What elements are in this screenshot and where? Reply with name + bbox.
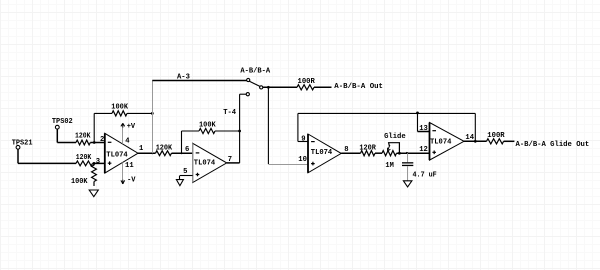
junction output node	[151, 152, 153, 154]
svg-text:TPS02: TPS02	[52, 118, 73, 126]
svg-text:120R: 120R	[359, 144, 376, 152]
resistor 100R (A-B/B-A Out)	[297, 85, 314, 90]
svg-text:2: 2	[100, 136, 104, 144]
svg-text:A-B/B-A Glide Out: A-B/B-A Glide Out	[516, 141, 590, 149]
svg-text:3: 3	[96, 158, 100, 166]
wire to U1c pin 10 (gray)	[268, 164, 308, 166]
switch throw contact A (A-3)	[247, 78, 250, 81]
svg-text:5: 5	[183, 168, 187, 176]
svg-text:TL074: TL074	[430, 139, 452, 147]
svg-text:100K: 100K	[199, 121, 216, 129]
svg-text:100R: 100R	[298, 78, 316, 86]
resistor 120K (between stages)	[156, 151, 172, 156]
test point TPS21 pin circle	[16, 145, 20, 149]
junction pot wiper node	[398, 152, 401, 155]
svg-text:TPS21: TPS21	[12, 139, 33, 147]
switch throw contact B (T-4)	[246, 93, 249, 96]
svg-text:Glide: Glide	[384, 133, 406, 141]
svg-text:11: 11	[125, 162, 134, 170]
wire feedback left leg U1b	[181, 131, 183, 153]
wire feedback to output node	[127, 112, 152, 114]
resistor 120K (TPS02 input)	[76, 140, 90, 145]
svg-text:12: 12	[419, 146, 428, 154]
op-amp U1a TL074	[105, 133, 138, 173]
wire U1c output	[341, 152, 360, 154]
svg-text:A-3: A-3	[177, 74, 190, 82]
wire pin 13 stub	[418, 131, 430, 133]
potentiometer Glide 1M (rheostat)	[382, 151, 397, 156]
wire R120K to U1b pin 6	[172, 152, 193, 154]
svg-text:T-4: T-4	[223, 109, 237, 117]
svg-text:4.7 uF: 4.7 uF	[413, 172, 437, 180]
svg-text:1M: 1M	[385, 162, 393, 170]
svg-text:1: 1	[139, 145, 144, 153]
svg-text:6: 6	[185, 146, 189, 154]
junction pin2 node	[93, 141, 96, 144]
-V supply pin 11	[122, 163, 124, 180]
junction output/feedback node	[474, 140, 477, 143]
resistor 100K feedback U1b	[199, 128, 215, 133]
svg-text:A-B/B-A Out: A-B/B-A Out	[334, 83, 383, 91]
wire pin 5 to ground	[180, 175, 193, 177]
ground (below 100K)	[89, 190, 98, 197]
wire feedback left leg	[93, 113, 95, 142]
svg-text:4: 4	[125, 137, 130, 145]
resistor 120R	[361, 151, 376, 156]
wire glide feedback (top)	[298, 112, 475, 114]
svg-text:TL074: TL074	[106, 152, 128, 160]
wire pin 13 riser	[417, 113, 419, 132]
wire A-3 riser (gray)	[152, 81, 154, 154]
wire T-4 riser	[239, 94, 241, 163]
svg-text:100R: 100R	[487, 132, 505, 140]
+V supply pin 4	[122, 128, 124, 144]
svg-text:120K: 120K	[156, 144, 173, 152]
svg-text:10: 10	[298, 156, 307, 164]
junction pin3 node	[93, 162, 96, 165]
svg-text:-V: -V	[127, 176, 136, 184]
wire A-B/B-A to glide stage riser	[267, 87, 269, 164]
wire 120R to Glide pot	[375, 152, 382, 154]
wire feedback riser right	[474, 113, 476, 141]
svg-text:TL074: TL074	[194, 160, 216, 168]
op-amp U1d TL074	[430, 123, 465, 161]
wire TPS02 to R 120K	[57, 142, 76, 144]
resistor 100K to ground	[92, 163, 97, 186]
wire to switch throw B	[240, 93, 247, 95]
wire U1d output	[464, 140, 487, 142]
wire to A-B/B-A Glide Out	[504, 140, 515, 142]
pot wiper bracket	[389, 143, 400, 154]
svg-text:120K: 120K	[76, 154, 92, 162]
switch arm	[249, 81, 260, 86]
svg-text:A-B/B-A: A-B/B-A	[240, 68, 270, 76]
wire feedback to T-4 node	[215, 130, 240, 132]
test point TPS02 pin circle	[55, 125, 59, 129]
junction pin 13 tap	[416, 112, 419, 115]
junction A-B/B-A node	[267, 86, 270, 89]
svg-text:120K: 120K	[75, 133, 91, 141]
switch common contact	[260, 86, 263, 89]
svg-text:+V: +V	[127, 123, 136, 131]
junction feedback tap U1b	[181, 152, 183, 154]
wire R120K to op-amp U1 pin 3	[93, 162, 105, 164]
wire switch common to R 100R	[263, 86, 297, 88]
wire to feedback R U1b	[182, 130, 200, 132]
resistor 100K feedback U1a	[112, 111, 127, 116]
wire pin 9 stub	[298, 141, 308, 143]
wire U1b output	[227, 162, 240, 164]
resistor 120K (TPS21 input)	[76, 161, 93, 166]
wire pot to U1d pin 12	[397, 152, 430, 154]
wire A-3	[152, 80, 246, 82]
ground (U1b pin 5)	[176, 180, 183, 186]
op-amp U1c TL074	[308, 134, 341, 173]
wire ground stub	[179, 176, 181, 180]
junction capacitor tap	[406, 152, 408, 154]
junction feedback/output riser	[151, 112, 154, 115]
wire TPS02 drop	[56, 129, 58, 142]
ground (below capacitor)	[403, 181, 412, 187]
op-amp U1b TL074	[193, 143, 227, 182]
svg-text:13: 13	[419, 125, 428, 133]
capacitor 4.7 uF	[407, 153, 409, 162]
wire R120K to op-amp U1 pin 2	[90, 142, 105, 144]
svg-text:100K: 100K	[111, 104, 128, 112]
wire TPS21 drop	[17, 149, 19, 163]
wire U1a output	[138, 152, 156, 154]
wire feedback riser pin 9	[297, 113, 299, 141]
svg-text:100K: 100K	[71, 178, 88, 186]
junction T-4 node	[238, 130, 241, 133]
svg-text:9: 9	[301, 136, 305, 144]
svg-text:TL074: TL074	[311, 149, 333, 157]
wire TPS21 to R 120K	[18, 162, 76, 164]
resistor 100R (Glide Out)	[487, 139, 504, 144]
wire to A-B/B-A Out	[314, 86, 332, 88]
wire to feedback R	[94, 112, 112, 114]
